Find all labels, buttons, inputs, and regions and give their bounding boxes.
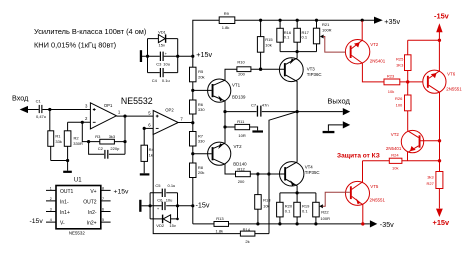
svg-text:3: 3	[50, 207, 52, 211]
svg-text:TIP35C: TIP35C	[305, 170, 320, 175]
svg-text:0.1u: 0.1u	[162, 78, 170, 83]
svg-text:2: 2	[50, 197, 52, 201]
svg-text:TIP36C: TIP36C	[307, 72, 322, 77]
svg-text:Вход: Вход	[12, 94, 29, 103]
svg-text:VT6: VT6	[447, 72, 456, 77]
svg-text:Усилитель В-класса 100вт (4 ом: Усилитель В-класса 100вт (4 ом)	[34, 27, 146, 36]
svg-text:C6: C6	[157, 198, 163, 203]
svg-text:VT5: VT5	[370, 184, 379, 189]
svg-text:OP2: OP2	[165, 108, 174, 113]
svg-text:6: 6	[102, 207, 104, 211]
svg-text:OUT1: OUT1	[60, 189, 74, 195]
svg-text:+15v: +15v	[114, 188, 130, 195]
svg-text:BD140: BD140	[233, 162, 247, 167]
svg-text:0.1u: 0.1u	[168, 183, 176, 188]
svg-text:U1: U1	[74, 177, 82, 183]
svg-text:4: 4	[50, 218, 52, 222]
svg-text:R15: R15	[265, 37, 273, 42]
svg-text:0.1: 0.1	[302, 34, 308, 39]
svg-text:VT1: VT1	[232, 82, 241, 87]
svg-text:100R: 100R	[320, 216, 330, 221]
svg-text:V-: V-	[60, 221, 65, 227]
svg-text:R26: R26	[395, 96, 403, 101]
svg-text:NE5532: NE5532	[69, 230, 85, 235]
svg-text:200: 200	[238, 72, 245, 77]
svg-text:R25: R25	[396, 56, 404, 61]
svg-text:C4: C4	[152, 78, 158, 83]
svg-text:0.1: 0.1	[302, 209, 308, 214]
svg-text:V+: V+	[90, 189, 96, 195]
svg-text:3k3: 3k3	[109, 134, 116, 139]
svg-text:1k: 1k	[149, 152, 153, 157]
svg-text:R20: R20	[285, 203, 293, 208]
svg-text:10k: 10k	[388, 89, 394, 94]
svg-text:15v: 15v	[159, 42, 165, 47]
svg-text:In2-: In2-	[88, 210, 97, 216]
svg-text:In2+: In2+	[87, 221, 97, 227]
svg-text:C2: C2	[98, 146, 104, 151]
svg-text:R24: R24	[391, 152, 399, 157]
svg-text:10R: 10R	[238, 133, 245, 138]
svg-text:R27: R27	[427, 181, 435, 186]
svg-text:1.8k: 1.8k	[216, 229, 224, 234]
svg-text:OUT2: OUT2	[83, 199, 97, 205]
svg-text:100: 100	[396, 102, 403, 107]
svg-text:C3: C3	[156, 62, 162, 67]
svg-text:VT2: VT2	[391, 132, 400, 137]
svg-text:33k: 33k	[55, 139, 61, 144]
svg-text:R22: R22	[321, 209, 329, 214]
svg-text:100R: 100R	[322, 28, 332, 33]
svg-text:VD1: VD1	[158, 29, 167, 34]
svg-text:C5: C5	[155, 183, 161, 188]
svg-text:R21: R21	[322, 22, 330, 27]
svg-text:330: 330	[198, 107, 205, 112]
svg-text:0.1: 0.1	[285, 209, 291, 214]
svg-text:R19: R19	[302, 203, 310, 208]
svg-text:20k: 20k	[198, 170, 204, 175]
svg-text:Выход: Выход	[327, 96, 350, 105]
svg-text:2N5401: 2N5401	[386, 146, 402, 151]
svg-text:R12: R12	[237, 166, 245, 171]
svg-text:20k: 20k	[198, 74, 204, 79]
svg-text:220p: 220p	[110, 146, 120, 151]
svg-text:-15v: -15v	[30, 218, 44, 225]
svg-text:In1-: In1-	[60, 199, 69, 205]
svg-text:VD2: VD2	[156, 223, 165, 228]
svg-text:R18: R18	[263, 198, 271, 203]
svg-text:КНИ 0,015% (1кГц 80вт): КНИ 0,015% (1кГц 80вт)	[34, 40, 116, 49]
svg-text:R23: R23	[387, 73, 395, 78]
svg-text:VT4: VT4	[305, 165, 314, 170]
svg-text:15v: 15v	[169, 223, 175, 228]
svg-text:R3: R3	[95, 134, 101, 139]
svg-text:-15v: -15v	[196, 201, 210, 210]
svg-text:NE5532: NE5532	[121, 96, 153, 106]
svg-text:C7: C7	[251, 102, 257, 107]
svg-text:3K3: 3K3	[396, 62, 404, 67]
svg-text:2k: 2k	[245, 239, 249, 244]
svg-text:+35v: +35v	[384, 17, 400, 26]
svg-text:-15v: -15v	[434, 11, 450, 20]
svg-text:1.8k: 1.8k	[222, 25, 230, 30]
svg-text:R9: R9	[224, 11, 230, 16]
svg-text:R10: R10	[237, 60, 245, 65]
svg-text:OP1: OP1	[104, 103, 113, 108]
svg-text:3k3: 3k3	[427, 175, 434, 180]
svg-text:10u: 10u	[166, 198, 173, 203]
svg-text:1: 1	[50, 186, 52, 190]
svg-text:2N5551: 2N5551	[446, 87, 462, 92]
svg-text:R14: R14	[243, 227, 251, 232]
svg-text:5: 5	[102, 218, 104, 222]
svg-text:200: 200	[238, 179, 245, 184]
svg-text:8: 8	[102, 186, 104, 190]
svg-text:10u: 10u	[163, 62, 170, 67]
svg-text:In1+: In1+	[60, 210, 70, 216]
svg-text:0,47u: 0,47u	[36, 114, 46, 119]
svg-text:330: 330	[198, 139, 205, 144]
svg-text:10k: 10k	[392, 166, 398, 171]
svg-text:0.1: 0.1	[284, 34, 290, 39]
svg-text:330R: 330R	[73, 141, 83, 146]
svg-text:VT2: VT2	[370, 42, 379, 47]
svg-text:7: 7	[102, 197, 104, 201]
svg-text:-35v: -35v	[380, 220, 394, 229]
svg-text:47n: 47n	[262, 102, 269, 107]
svg-text:10k: 10k	[263, 204, 269, 209]
svg-text:+15v: +15v	[196, 50, 212, 59]
svg-text:2N5401: 2N5401	[370, 59, 386, 64]
svg-text:VT3: VT3	[307, 67, 316, 72]
svg-text:10k: 10k	[265, 43, 271, 48]
svg-text:VT2: VT2	[234, 144, 243, 149]
svg-text:BD139: BD139	[232, 95, 246, 100]
svg-text:R11: R11	[237, 119, 245, 124]
svg-text:C1: C1	[36, 99, 42, 104]
svg-text:R13: R13	[216, 216, 224, 221]
svg-text:+15v: +15v	[433, 218, 451, 227]
svg-text:2N5551: 2N5551	[370, 197, 386, 202]
svg-text:Защита от КЗ: Защита от КЗ	[337, 153, 380, 160]
